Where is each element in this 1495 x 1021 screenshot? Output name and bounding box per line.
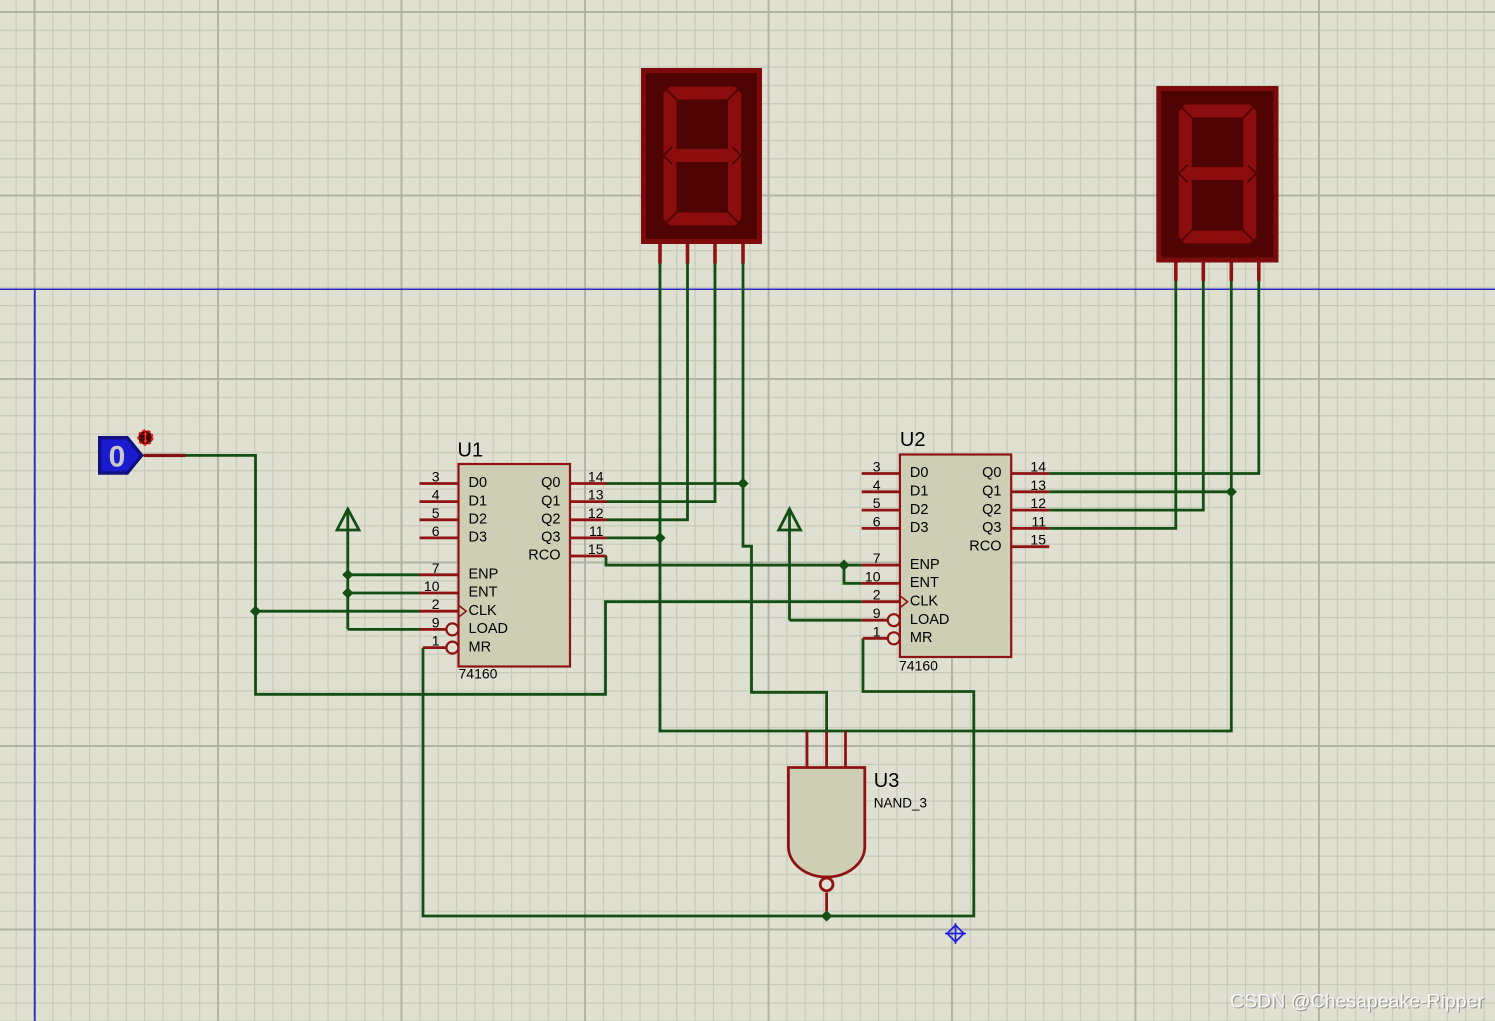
U2 pin names right [969,465,1001,554]
svg-text:Q2: Q2 [541,512,560,528]
U2 pin names left [910,465,950,646]
U2 LOAD bubble [888,614,900,626]
svg-text:7: 7 [873,550,881,566]
power terminal right [779,509,801,530]
U2 pin numbers right [1030,459,1046,548]
U1 pin numbers right [588,469,604,558]
svg-text:CSDN @Chesapeake-Ripper: CSDN @Chesapeake-Ripper [1230,991,1484,1013]
svg-text:ENT: ENT [469,585,498,601]
U2 right pin stubs [1011,474,1049,547]
svg-text:U3: U3 [874,770,900,792]
svg-text:2: 2 [432,596,440,612]
wire: U2 Q1 to display2 pin3 junction [1049,490,1231,493]
U1 right pin stubs [570,484,607,557]
svg-text:Q3: Q3 [541,530,560,546]
junction power1/ENT [342,587,353,598]
wire: power1 to U1 ENP [348,573,420,576]
svg-text:1: 1 [873,623,881,639]
svg-text:9: 9 [873,605,881,621]
U2 CLK chevron [900,596,908,608]
7seg display1 digit 8 [663,86,742,226]
chip U2 body [900,455,1011,658]
junction power1/ENP [342,569,353,580]
wire: power2 stem [788,512,791,620]
svg-text:4: 4 [432,487,440,503]
svg-text:1: 1 [432,633,440,649]
svg-text:D2: D2 [469,512,488,528]
svg-text:Q1: Q1 [982,484,1001,500]
svg-text:12: 12 [588,505,604,521]
svg-text:ENP: ENP [910,557,940,573]
svg-text:14: 14 [1030,459,1046,475]
svg-text:Q0: Q0 [541,475,560,491]
wire: U1 Q2 to display1 pin2 [607,264,688,520]
wire: power1 stem [346,512,349,629]
logic input body [100,438,142,473]
svg-text:14: 14 [588,469,604,485]
svg-text:RCO: RCO [528,548,560,564]
svg-text:D3: D3 [910,520,929,536]
svg-text:D3: D3 [469,530,488,546]
NAND input stub right [844,731,847,768]
sheet border blue vertical [34,289,36,1021]
svg-text:Q1: Q1 [541,493,560,509]
7seg display2 digit 8 [1178,104,1257,244]
svg-text:ENP: ENP [469,567,499,583]
junction RCO/ENP U2 [838,560,849,571]
svg-text:2: 2 [873,587,881,603]
svg-text:11: 11 [1031,513,1046,529]
svg-text:D2: D2 [910,502,929,518]
svg-text:U2: U2 [900,429,926,451]
svg-text:6: 6 [432,523,440,539]
wire: clock branch to U1 CLK [256,610,420,613]
svg-text:D1: D1 [469,493,488,509]
svg-text:LOAD: LOAD [910,612,950,628]
svg-text:6: 6 [873,513,881,529]
U1 CLK chevron [459,605,467,617]
power terminal left [337,509,359,530]
7seg display1 body [644,71,760,242]
wire: input to clock verticals [186,455,862,694]
svg-text:3: 3 [873,459,881,475]
svg-text:11: 11 [589,523,604,539]
svg-text:MR: MR [469,639,492,655]
NAND output stub [825,893,828,912]
svg-text:D1: D1 [910,484,929,500]
U2 pin numbers left [865,459,881,640]
U1 MR bubble [446,642,458,654]
svg-text:13: 13 [1030,477,1046,493]
U1 pin numbers left [424,469,440,649]
U1 pin names right [528,475,560,564]
logic input pin stub [144,454,186,457]
svg-text:CLK: CLK [469,603,498,619]
wire: U2 Q3 to display2 pin1 [1049,281,1176,528]
U2 MR bubble [888,632,900,644]
7seg display2 body [1159,89,1276,261]
svg-text:74160: 74160 [899,658,938,674]
svg-text:CLK: CLK [910,593,939,609]
wire: display1 pin1 down and long bus to display2 pin3 [660,264,1231,732]
input toggle marker [138,431,152,445]
junction NAND output [821,910,832,921]
U1 left pin stubs D0-D3 [420,484,459,648]
U1 pin names left [469,475,509,655]
svg-text:5: 5 [432,505,440,521]
wire: U2 Q0 to display2 pin4 [1049,281,1259,474]
svg-text:3: 3 [432,469,440,485]
7seg display1 pins [660,244,743,264]
NAND input stub middle [825,732,828,768]
wire: U1 Q1 to display1 pin3 [607,264,716,502]
sheet border blue horizontal [0,288,1495,290]
svg-text:0: 0 [109,441,126,474]
svg-text:7: 7 [432,560,440,576]
svg-text:LOAD: LOAD [469,621,509,637]
svg-text:74160: 74160 [459,666,498,682]
U3 output bubble [820,878,833,891]
svg-text:10: 10 [424,578,440,594]
junction clock split [250,606,261,617]
svg-text:4: 4 [873,477,881,493]
svg-text:9: 9 [432,614,440,630]
wire: U1 Q3 to display1 pin1 [607,537,661,540]
7seg display2 pins [1176,263,1259,282]
origin marker crosshair [945,923,966,944]
svg-text:5: 5 [873,495,881,511]
NAND input stub left [806,731,809,768]
junction U2 Q1/display2 [1226,486,1237,497]
svg-text:NAND_3: NAND_3 [874,796,927,811]
wire: power2 to U2 LOAD [790,619,862,622]
svg-text:15: 15 [1030,532,1046,548]
wire: RCO branch to U2 ENT [844,565,862,583]
wire: power1 to U1 ENT [348,592,420,595]
svg-text:Q0: Q0 [982,465,1001,481]
svg-text:U1: U1 [458,440,484,462]
wire: U1 RCO to U2 ENP [606,556,862,565]
svg-text:13: 13 [588,487,604,503]
svg-text:15: 15 [588,541,604,557]
junction Q0/display1 [737,478,748,489]
wire: display1 pin4 down to NAND middle [743,264,827,732]
chip U1 body [459,464,571,667]
svg-text:D0: D0 [469,475,488,491]
wire: power1 to U1 LOAD [348,628,420,631]
wire: MR net U1 MR to NAND out to U2 MR [423,638,974,916]
svg-text:RCO: RCO [969,538,1001,554]
svg-text:Q2: Q2 [982,502,1001,518]
wire: U2 Q2 to display2 pin2 [1049,281,1203,510]
svg-text:12: 12 [1030,495,1046,511]
svg-text:MR: MR [910,630,933,646]
U2 left pin stubs [862,474,900,639]
gate U3 body [788,768,864,877]
svg-text:10: 10 [865,568,881,584]
svg-text:Q3: Q3 [982,520,1001,536]
wire: U1 Q0 to display1 pin4 [607,482,744,485]
junction Q3/display1 [654,532,665,543]
svg-text:ENT: ENT [910,575,939,591]
U1 LOAD bubble [446,623,458,635]
svg-text:D0: D0 [910,465,929,481]
